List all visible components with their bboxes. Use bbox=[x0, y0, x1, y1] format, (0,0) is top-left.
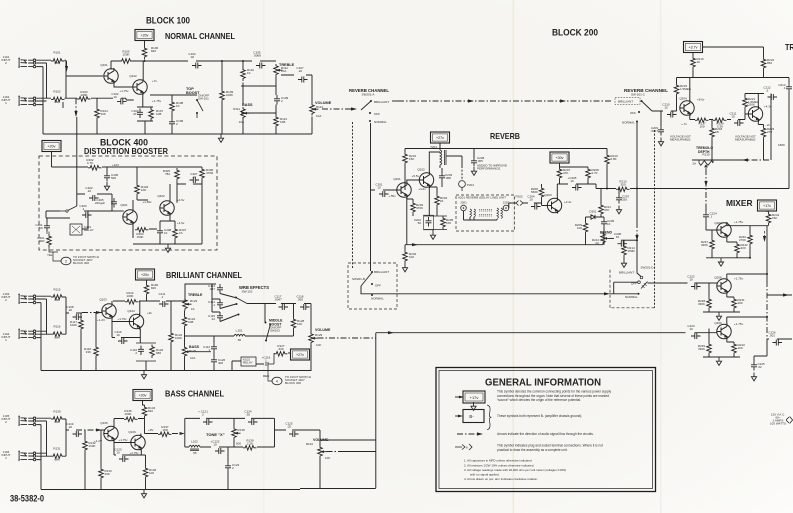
svg-text:+9v: +9v bbox=[147, 311, 152, 315]
resistor R131 bbox=[51, 454, 65, 459]
wire tone right vertical bbox=[274, 418, 276, 447]
switch blade SW201-B bbox=[361, 273, 372, 287]
svg-text:68K: 68K bbox=[54, 458, 59, 462]
resistor R203 bbox=[411, 201, 416, 215]
svg-text:R123: R123 bbox=[190, 299, 198, 303]
capacitor C120 bbox=[119, 456, 129, 462]
wire C120 row bbox=[114, 440, 146, 456]
resistor R402 bbox=[88, 166, 102, 171]
wire tremolo bottom row bbox=[692, 159, 740, 161]
wire C223 to base bbox=[695, 332, 718, 334]
wire R237 column bbox=[711, 230, 713, 258]
svg-text:Q401: Q401 bbox=[120, 203, 128, 207]
capacitor C113 bbox=[217, 284, 223, 294]
svg-text:BASS CHANNEL: BASS CHANNEL bbox=[165, 390, 224, 399]
arrow down on mixer bus bbox=[764, 231, 766, 239]
switch contact block400 input bbox=[66, 210, 68, 212]
wire R241 column bbox=[727, 294, 734, 312]
resistor R139 bbox=[243, 446, 257, 451]
wire C202 gnd stub bbox=[432, 230, 434, 232]
wire lower input row bbox=[65, 98, 134, 100]
resistor R135 bbox=[124, 417, 138, 422]
wire R137 row bbox=[141, 434, 158, 436]
dash arrow J102 bbox=[62, 102, 64, 110]
contact SW-101 b bbox=[196, 112, 198, 114]
svg-text:2. All resistors 1/2W 10% u: 2. All resistors 1/2W 10% unless otherwi… bbox=[464, 463, 534, 467]
jack J105 bbox=[18, 416, 35, 426]
transistor Q201 bbox=[397, 182, 411, 198]
svg-text:10A: 10A bbox=[190, 356, 195, 360]
svg-text:4: 4 bbox=[276, 379, 278, 383]
capacitor C201 bbox=[379, 191, 389, 197]
contact SW-103 top bbox=[265, 322, 267, 324]
svg-text:R214180R: R214180R bbox=[628, 246, 636, 253]
svg-text:OFF: OFF bbox=[630, 111, 636, 115]
parallel network C202/R205 frame bbox=[424, 216, 447, 230]
svg-text:Q202: Q202 bbox=[417, 168, 425, 172]
resistor R103 bbox=[77, 97, 91, 102]
foot switch plug 4 bbox=[272, 377, 282, 385]
wire delay line bottom bbox=[464, 211, 498, 220]
wire +20v to R160 bbox=[146, 280, 148, 283]
svg-text:R129: R129 bbox=[315, 333, 323, 337]
ground symbol C207 bbox=[616, 206, 621, 214]
capacitor C105 on rail bbox=[256, 63, 266, 69]
svg-text:+1.75v: +1.75v bbox=[129, 451, 139, 455]
wire Q105 collector bbox=[113, 419, 115, 428]
arrow bass volume out bbox=[327, 451, 341, 453]
svg-text:practical to draw the assembly: practical to draw the assembly as a comp… bbox=[497, 448, 568, 452]
svg-text:SW-201-C: SW-201-C bbox=[631, 93, 646, 97]
wire P202 row bbox=[509, 203, 548, 208]
svg-text:SW-102: SW-102 bbox=[242, 290, 253, 294]
transistor Q209 bbox=[717, 324, 731, 340]
svg-text:R115: R115 bbox=[54, 288, 61, 292]
wire K401 leads bbox=[46, 211, 88, 229]
wire top rail normal channel bbox=[111, 60, 276, 62]
wire C209 column bbox=[660, 111, 662, 126]
capacitor C115 bbox=[217, 312, 223, 322]
resistor R115 bbox=[51, 295, 65, 300]
sample plug symbol bbox=[455, 444, 472, 450]
resistor R137 bbox=[158, 432, 172, 437]
wire C201 feed bbox=[371, 189, 398, 191]
resistor R117 bbox=[79, 318, 84, 332]
wire R243 column bbox=[727, 340, 734, 358]
general information box frame bbox=[436, 368, 656, 492]
svg-text:68K: 68K bbox=[54, 298, 59, 302]
wire input join brilliant bbox=[65, 297, 70, 334]
wire tremolo feed to mixer bbox=[706, 206, 717, 230]
svg-text:+9V: +9V bbox=[148, 428, 153, 432]
svg-text:R125: R125 bbox=[189, 349, 197, 353]
svg-text:+20v: +20v bbox=[141, 34, 149, 38]
wire relay K102 leads bbox=[232, 361, 264, 371]
svg-text:2: 2 bbox=[65, 259, 67, 263]
wire treble-bass column bbox=[184, 311, 186, 346]
wire SW201-D common out bbox=[648, 282, 718, 284]
resistor R134 bbox=[142, 405, 147, 419]
svg-text:C105.0068: C105.0068 bbox=[253, 51, 261, 58]
wire J103 row bbox=[36, 296, 51, 370]
svg-text:L101: L101 bbox=[236, 329, 243, 333]
transistor Q104 bbox=[129, 314, 143, 330]
capacitor C102 bbox=[117, 98, 127, 104]
potentiometer R112 treble bbox=[274, 64, 283, 77]
svg-text:R111: R111 bbox=[233, 107, 240, 111]
power box +20v (bass) bbox=[133, 390, 152, 401]
wire treble wiper to C107 bbox=[281, 74, 312, 76]
svg-text:OFF: OFF bbox=[374, 112, 380, 116]
svg-text:R203470K: R203470K bbox=[416, 203, 424, 210]
resistor R132 bbox=[83, 439, 88, 453]
capacitor C403 bbox=[82, 212, 92, 218]
wire L101 row bbox=[185, 335, 294, 337]
svg-text:.56: .56 bbox=[192, 451, 197, 455]
capacitor C121 bbox=[203, 419, 213, 425]
contact SW201-D off bbox=[638, 281, 641, 284]
switch blade SW-102 bbox=[236, 298, 247, 304]
svg-text:R116: R116 bbox=[54, 325, 61, 329]
wire Q101 collector bbox=[110, 61, 112, 70]
wire tone out bbox=[275, 429, 321, 431]
svg-text:Q101: Q101 bbox=[100, 63, 108, 67]
svg-text:J201: J201 bbox=[460, 201, 467, 205]
wire R207/R208 top row bbox=[560, 166, 589, 168]
contact SW-103 bottom bbox=[265, 340, 267, 342]
resistor R130 bbox=[51, 417, 65, 422]
ground symbol brilliant bbox=[141, 371, 146, 379]
wire bass pot bottom bbox=[184, 358, 186, 371]
svg-text:BRILLIANT: BRILLIANT bbox=[618, 100, 633, 104]
wire R403 top bbox=[137, 167, 148, 200]
wire Q401 collector up bbox=[132, 200, 134, 211]
svg-text:68K: 68K bbox=[54, 100, 59, 104]
potentiometer R125 bass bbox=[182, 346, 191, 359]
capacitor C209 bbox=[658, 126, 664, 136]
svg-text:A201 REVERB (DELAY LINE) UNIT: A201 REVERB (DELAY LINE) UNIT bbox=[458, 196, 506, 200]
resistor R223 bbox=[761, 126, 766, 140]
svg-text:NORMAL: NORMAL bbox=[371, 297, 384, 301]
transistor Q402 bbox=[160, 200, 174, 216]
transistor Q102 bbox=[133, 79, 147, 95]
wire R405/R406 drops bbox=[177, 181, 202, 203]
svg-text:BLOCK 200: BLOCK 200 bbox=[552, 28, 598, 39]
svg-text:+1.75v: +1.75v bbox=[734, 277, 744, 281]
resistor R240 bbox=[748, 233, 753, 247]
wire reverb out to R213 bbox=[588, 184, 789, 189]
svg-text:R119100K: R119100K bbox=[126, 291, 133, 298]
potentiometer R114 volume bbox=[310, 103, 319, 116]
capacitor C124 bbox=[248, 419, 258, 425]
plug P202 bbox=[516, 201, 523, 206]
capacitor C401 bbox=[44, 222, 50, 232]
wire Q103 collector bbox=[111, 301, 113, 305]
svg-text:+20v: +20v bbox=[141, 273, 149, 277]
svg-text:R101: R101 bbox=[53, 51, 61, 55]
arrowhead signal line mid bbox=[468, 99, 474, 102]
wire bottom rail normal bbox=[43, 133, 312, 135]
wire R221 links bbox=[744, 94, 746, 115]
wire brilliant ground rail bbox=[41, 370, 312, 372]
svg-text:.56: .56 bbox=[237, 338, 242, 342]
resistor R239 bbox=[707, 342, 712, 356]
svg-text:MIXER: MIXER bbox=[726, 199, 753, 208]
junction R210/out bbox=[606, 188, 608, 190]
svg-text:+1.75v: +1.75v bbox=[119, 89, 129, 93]
svg-text:REVERB: REVERB bbox=[490, 132, 520, 141]
wire C119 row bbox=[112, 318, 140, 344]
wire R127 to +27v box bbox=[288, 352, 291, 354]
ground symbol C225 bbox=[751, 373, 756, 381]
svg-text:NORMAL: NORMAL bbox=[625, 295, 638, 299]
wire normal contact down x637 bbox=[636, 122, 638, 189]
capacitor C212 bbox=[768, 94, 778, 100]
resistor R208 bbox=[586, 167, 591, 181]
svg-text:+17v: +17v bbox=[763, 204, 771, 208]
svg-text:Q203: Q203 bbox=[544, 193, 552, 197]
svg-text:GENERAL INFORMATION: GENERAL INFORMATION bbox=[485, 377, 601, 389]
wire diode row bbox=[586, 216, 605, 218]
arrow volume to SW201-A bbox=[322, 108, 356, 110]
wire to C402 row bbox=[77, 193, 112, 195]
inductor L101 bbox=[234, 334, 245, 336]
svg-text:+27v: +27v bbox=[296, 353, 304, 357]
resistor R128 bbox=[291, 317, 296, 331]
resistor R207 bbox=[557, 167, 562, 181]
lead C114 to contact bbox=[220, 304, 236, 309]
wire Q105 base lead bbox=[99, 430, 105, 467]
transistor Q306 bbox=[748, 106, 762, 122]
svg-text:Q207: Q207 bbox=[714, 221, 722, 225]
wire Q101 emitter to Q102 base bbox=[114, 82, 134, 87]
wire reverb rail bbox=[405, 143, 607, 149]
power box +3.7v bbox=[684, 42, 703, 53]
svg-text:+20v: +20v bbox=[139, 394, 147, 398]
arrow volume brilliant out bbox=[318, 337, 376, 339]
wire mid column x276 bbox=[275, 77, 277, 135]
svg-text:+27v: +27v bbox=[436, 136, 444, 140]
wire C206 column bbox=[603, 217, 605, 245]
svg-text:Q201: Q201 bbox=[393, 177, 401, 181]
ground symbol C228 bbox=[471, 167, 476, 175]
transistor Q103 bbox=[102, 303, 116, 319]
junction rail/R109 bbox=[221, 60, 223, 62]
svg-text:+7v: +7v bbox=[152, 79, 157, 83]
resistor R213 bbox=[616, 187, 630, 192]
wire brilliant rail bbox=[113, 297, 184, 302]
wire R128 column bbox=[293, 304, 295, 337]
svg-text:BRILLIANT: BRILLIANT bbox=[619, 271, 634, 275]
diode D201 bbox=[589, 215, 597, 219]
contact SW-102 1 bbox=[235, 297, 237, 299]
capacitor C406 bbox=[104, 172, 110, 182]
ground symbol bass bbox=[141, 490, 146, 498]
potentiometer R138 bbox=[232, 427, 241, 440]
svg-text:NORMAL CHANNEL: NORMAL CHANNEL bbox=[165, 32, 235, 41]
jack J102 bbox=[18, 96, 35, 106]
wire C203 column bbox=[441, 168, 443, 187]
wire C207 column bbox=[618, 189, 620, 195]
switch blade SW201-D bbox=[641, 282, 648, 289]
capacitor C123 bbox=[225, 462, 231, 472]
resistor R104 bbox=[95, 107, 100, 121]
contact SW201-C brilliant bbox=[641, 100, 643, 102]
svg-text:R105100K: R105100K bbox=[122, 50, 130, 57]
wire bass ground rail bbox=[41, 489, 376, 490]
capacitor C225 bbox=[751, 361, 757, 371]
wire Q402 emitter down bbox=[160, 215, 175, 228]
capacitor C202 bbox=[426, 217, 432, 227]
svg-text:BRILLIANT CHANNEL: BRILLIANT CHANNEL bbox=[166, 271, 242, 280]
dashed x654 vertical bbox=[654, 130, 656, 308]
svg-text:+4.2v: +4.2v bbox=[418, 187, 426, 191]
wire blend wiper bbox=[610, 237, 615, 239]
wire long normal line bbox=[395, 293, 598, 295]
svg-text:BASS: BASS bbox=[242, 103, 253, 107]
potentiometer R123 treble bbox=[183, 298, 192, 311]
svg-text:R237330K: R237330K bbox=[701, 240, 709, 247]
wire Q207 collector row bbox=[727, 222, 769, 226]
capacitor C103 bbox=[137, 109, 143, 119]
wire C228 top bbox=[473, 149, 475, 158]
dashed enclosure SW201-D bbox=[610, 268, 655, 308]
power box +27v (reverb) bbox=[431, 132, 450, 143]
contact SW201-C normal bbox=[636, 121, 638, 123]
svg-text:+8.6v: +8.6v bbox=[697, 98, 705, 102]
signal line to SW201-C bbox=[398, 100, 612, 102]
resistor R106 bbox=[142, 46, 147, 60]
arrowhead reverb bottom bbox=[412, 243, 418, 246]
transistor Q101 bbox=[104, 68, 118, 84]
resistor R210 bbox=[605, 153, 610, 167]
potentiometer R212 blend bbox=[601, 232, 610, 245]
wire Q401 emitter down bbox=[133, 224, 157, 239]
svg-text:2A: 2A bbox=[692, 162, 696, 166]
wire treble column bbox=[241, 61, 276, 134]
resistor R222 bbox=[761, 57, 766, 71]
wire R136 column bbox=[145, 455, 147, 490]
arrowhead into tone network bbox=[180, 432, 185, 435]
svg-text:with no signal applied.: with no signal applied. bbox=[470, 472, 500, 476]
capacitor C111 on rail bbox=[159, 301, 169, 307]
resistor R101 bbox=[51, 59, 65, 64]
transistor Q105 bbox=[104, 426, 118, 442]
wire bass out to bus bbox=[340, 451, 376, 453]
svg-text:DISTORTION BOOSTER: DISTORTION BOOSTER bbox=[84, 147, 168, 156]
svg-text:+1.75v: +1.75v bbox=[118, 438, 128, 442]
svg-text:R140: R140 bbox=[306, 442, 314, 446]
wire Q201 to Q202 bbox=[407, 180, 420, 183]
svg-text:R238330K: R238330K bbox=[698, 299, 706, 306]
arrowhead signal line mid2 bbox=[560, 99, 566, 102]
capacitor C108 bbox=[73, 314, 83, 320]
svg-text:500: 500 bbox=[236, 442, 241, 446]
wire C225 column bbox=[754, 339, 767, 361]
resistor R124 bbox=[182, 315, 187, 329]
parallel network C110/R120 frame bbox=[136, 343, 156, 361]
svg-text:Arrows indicate the direction: Arrows indicate the direction of audio s… bbox=[497, 432, 594, 436]
ground symbol sample bbox=[471, 402, 476, 410]
dash arrow into SW201-D bbox=[598, 293, 614, 295]
contact SW201-D brilliant bbox=[640, 276, 643, 279]
wire T201 top/bottom bbox=[439, 149, 441, 169]
capacitor C105b bbox=[169, 118, 175, 128]
svg-text:180K: 180K bbox=[778, 143, 785, 147]
capacitor C125 bbox=[289, 431, 299, 437]
contact SW201-B off bbox=[371, 283, 373, 285]
wire R203 links bbox=[407, 197, 413, 216]
wire C105b to ground rail bbox=[171, 128, 173, 135]
wire SW201-B common out bbox=[361, 286, 395, 294]
capacitor C118 bbox=[300, 304, 310, 310]
potentiometer R111 bass bbox=[241, 107, 250, 120]
wire C403 row bbox=[46, 194, 112, 218]
capacitor C203 bbox=[439, 172, 445, 182]
svg-text:Q304: Q304 bbox=[679, 97, 687, 101]
wire C213 column bbox=[788, 78, 790, 189]
wire +20v bass column bbox=[143, 401, 145, 434]
dashed frame BRILLIANT contact bbox=[615, 98, 640, 105]
delay line springs bbox=[479, 210, 492, 217]
resistor R238 bbox=[707, 297, 712, 311]
wire bass pot top link bbox=[320, 439, 376, 441]
wire mixer bus dashed bbox=[766, 281, 768, 339]
fold line bbox=[660, 0, 662, 513]
wire mixer rail 3 bbox=[703, 356, 740, 358]
wire R104 bottom stub bbox=[96, 98, 98, 134]
wire R133 drop bbox=[100, 481, 102, 490]
dash R219 wiper down bbox=[705, 169, 707, 206]
wire R238 column bbox=[708, 283, 710, 312]
contact SW-102 3 bbox=[238, 314, 240, 316]
wire +3.7v links bbox=[693, 47, 764, 57]
resistor R107 bbox=[149, 108, 154, 122]
delay line transformer coils bbox=[470, 208, 503, 218]
wire C406 drop bbox=[106, 167, 108, 172]
wire bass volume column bbox=[319, 430, 321, 488]
svg-text:Q209: Q209 bbox=[714, 321, 722, 325]
wire R138 column bbox=[233, 418, 235, 447]
resistor R133 bbox=[99, 467, 104, 481]
svg-text:SW201-B: SW201-B bbox=[352, 277, 365, 281]
junction Q209 row/bus bbox=[766, 316, 768, 318]
wire C205 row bbox=[557, 181, 588, 185]
ground symbol mixer 2 bbox=[716, 312, 721, 320]
svg-text:TREMOLO: TREMOLO bbox=[785, 43, 793, 52]
wire R202 column bbox=[404, 183, 406, 250]
wire Q202 collector bbox=[429, 152, 440, 173]
resistor R204 bbox=[435, 194, 440, 208]
arrowhead tremolo bottom bbox=[742, 158, 748, 161]
svg-text:R11833K: R11833K bbox=[84, 347, 91, 354]
capacitor C104 bbox=[192, 63, 202, 69]
resistor R205 bbox=[441, 216, 446, 230]
symbol sample B- box bbox=[463, 410, 484, 423]
dash tremolo bottom row bbox=[740, 159, 771, 161]
wire Q207 emitter bbox=[727, 238, 737, 242]
ground symbol R214 bbox=[621, 259, 626, 267]
svg-text:+20v: +20v bbox=[48, 145, 56, 149]
arrowhead sample dashed bbox=[477, 432, 483, 435]
fold line bbox=[263, 0, 265, 513]
wire R244 top bbox=[767, 211, 769, 212]
resistor R404 bbox=[135, 228, 149, 233]
arrowhead into Q105 base bbox=[96, 429, 102, 432]
wire relay to plug 4 bbox=[268, 366, 272, 381]
wire mix bus vertical bbox=[375, 333, 377, 488]
wire +30v column bbox=[557, 163, 559, 199]
